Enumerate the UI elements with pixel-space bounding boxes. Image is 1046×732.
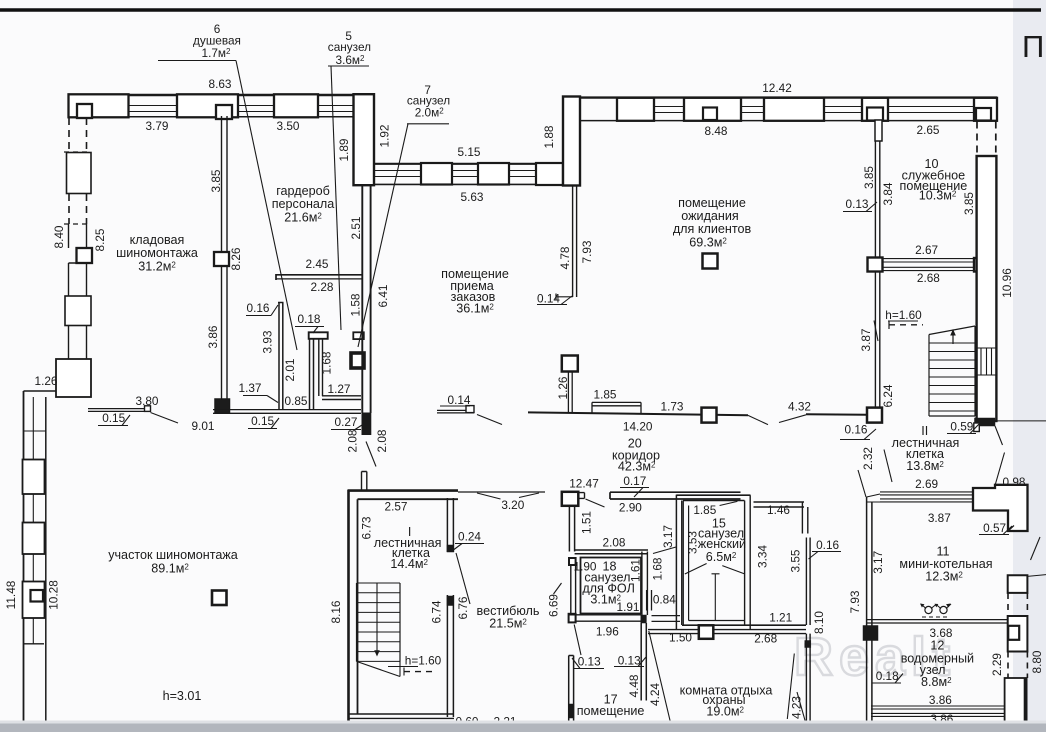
- svg-text:2.90: 2.90: [619, 501, 642, 515]
- svg-text:2.69: 2.69: [915, 477, 938, 491]
- window double lines: [129, 106, 354, 112]
- svg-text:5.63: 5.63: [461, 190, 484, 204]
- inner bottom line of 15/16: [683, 621, 806, 626]
- svg-text:шиномонтажа: шиномонтажа: [116, 246, 198, 260]
- svg-text:ожидания: ожидания: [681, 209, 738, 223]
- svg-text:помещение: помещение: [678, 196, 746, 210]
- svg-text:7.93: 7.93: [580, 240, 594, 263]
- svg-text:2.08: 2.08: [346, 429, 360, 452]
- svg-text:4.78: 4.78: [558, 246, 572, 269]
- svg-text:7.93: 7.93: [848, 590, 862, 613]
- svg-text:5.15: 5.15: [458, 145, 481, 159]
- wall y274-279: [276, 274, 362, 276]
- svg-text:1.88: 1.88: [542, 125, 556, 148]
- corridor piers: [702, 408, 717, 423]
- thin line to page edge: [996, 420, 1046, 422]
- exit door swings: [995, 426, 1005, 486]
- svg-text:21.5м2: 21.5м2: [489, 617, 527, 631]
- svg-text:3.87: 3.87: [859, 329, 873, 352]
- svg-text:12: 12: [930, 639, 944, 653]
- svg-text:10.3м2: 10.3м2: [919, 189, 957, 203]
- svg-text:3.86: 3.86: [929, 693, 952, 707]
- svg-text:1.68: 1.68: [320, 351, 334, 374]
- wall y550-554 (2.08): [575, 550, 648, 554]
- room6 left wall x279-283: [278, 303, 284, 410]
- svg-text:4.23: 4.23: [789, 696, 803, 719]
- south band y409-413: [213, 410, 361, 414]
- svg-text:3.85: 3.85: [962, 192, 976, 215]
- dashed window y193-222: [69, 194, 87, 224]
- wall band lines: [68, 94, 355, 96]
- wall section: [69, 263, 87, 296]
- room 16 top wall: [754, 502, 805, 507]
- svg-text:6.69: 6.69: [547, 594, 561, 617]
- svg-text:2.51: 2.51: [349, 217, 363, 240]
- room18 санузел для ФОЛ: [571, 559, 576, 615]
- bottom wall y619-623: [867, 620, 1008, 623]
- svg-text:8.10: 8.10: [812, 611, 826, 634]
- svg-text:1.85: 1.85: [594, 388, 617, 402]
- corridor north long line: [528, 412, 748, 415]
- wall 1.85 box: [592, 402, 641, 414]
- svg-text:0.85: 0.85: [285, 394, 308, 408]
- left wall x866-872: [867, 497, 872, 626]
- door swing: [151, 413, 179, 424]
- svg-text:1.92: 1.92: [378, 125, 392, 148]
- pier P3: [274, 94, 318, 117]
- column marker: [77, 248, 93, 263]
- svg-text:42.3м2: 42.3м2: [618, 460, 656, 474]
- svg-text:1.26: 1.26: [35, 374, 58, 388]
- svg-text:0.18: 0.18: [876, 669, 899, 683]
- pier P1: [69, 94, 129, 117]
- svg-text:для клиентов: для клиентов: [673, 222, 752, 236]
- svg-text:3.55: 3.55: [789, 549, 803, 572]
- svg-text:2.29: 2.29: [990, 653, 1004, 676]
- svg-text:8.40: 8.40: [52, 225, 66, 248]
- svg-text:1.50: 1.50: [669, 631, 692, 645]
- dashed window y118-152: [69, 118, 87, 152]
- svg-text:участок шиномонтажа: участок шиномонтажа: [108, 548, 238, 562]
- svg-text:1.61: 1.61: [628, 559, 642, 582]
- svg-text:10.96: 10.96: [1000, 268, 1014, 298]
- wall section: [69, 326, 87, 360]
- svg-text:31.2м2: 31.2м2: [138, 260, 176, 274]
- svg-text:2.08: 2.08: [603, 536, 626, 550]
- west segment of south line: [88, 409, 150, 412]
- small column markers: [703, 108, 717, 121]
- svg-text:1.89: 1.89: [337, 139, 351, 162]
- wall y629-634 + pier: [648, 630, 699, 634]
- svg-text:2.68: 2.68: [754, 632, 777, 646]
- вестибюль right stub x568-574: [569, 656, 574, 723]
- window block: [65, 296, 91, 326]
- stub below pier: [875, 120, 882, 141]
- svg-text:1.37: 1.37: [239, 381, 262, 395]
- svg-text:19.0м2: 19.0м2: [706, 705, 744, 719]
- svg-text:0.15: 0.15: [251, 414, 274, 428]
- 0.14 corner tick: [556, 294, 573, 301]
- svg-text:13.8м2: 13.8м2: [906, 459, 944, 473]
- svg-text:0.98: 0.98: [1003, 475, 1026, 489]
- small square notch: [31, 590, 44, 602]
- svg-text:8.80: 8.80: [1030, 650, 1044, 673]
- stairs I: [357, 583, 401, 662]
- svg-text:1.73: 1.73: [661, 400, 684, 414]
- svg-text:0.17: 0.17: [623, 474, 646, 488]
- exterior step 0.98: [973, 485, 1028, 531]
- svg-text:69.3м2: 69.3м2: [689, 236, 727, 250]
- svg-text:2.32: 2.32: [861, 447, 875, 470]
- svg-text:0.16: 0.16: [247, 301, 270, 315]
- column in ожидания room: [703, 254, 718, 269]
- window in right wall: [978, 350, 995, 374]
- svg-text:0.57: 0.57: [983, 521, 1006, 535]
- svg-text:3.50: 3.50: [277, 119, 300, 133]
- svg-text:8.63: 8.63: [209, 77, 232, 91]
- svg-text:2.01: 2.01: [283, 359, 297, 382]
- 0.84 nook wall: [647, 590, 680, 621]
- svg-text:0.59: 0.59: [950, 420, 973, 434]
- door bracket at thick wall: [353, 332, 364, 339]
- svg-text:1.85: 1.85: [693, 503, 716, 517]
- room15/16 bottom wall: [682, 624, 806, 626]
- svg-text:2.67: 2.67: [915, 243, 938, 257]
- svg-text:санузел: санузел: [328, 40, 371, 54]
- column marker in P2: [216, 105, 232, 119]
- svg-text:0.13: 0.13: [618, 654, 641, 668]
- wall 2.69 (x880-973): [880, 492, 973, 502]
- bottom gray band: [0, 724, 1046, 732]
- wall x676-682 (corridor side): [676, 495, 681, 629]
- corner block: [56, 359, 91, 397]
- svg-text:3.87: 3.87: [928, 511, 951, 525]
- svg-text:женский: женский: [698, 537, 746, 551]
- svg-text:3.34: 3.34: [755, 545, 769, 568]
- svg-text:2.28: 2.28: [311, 280, 334, 294]
- right wall lower w/ black tip: [447, 595, 453, 717]
- svg-text:1.51: 1.51: [580, 511, 594, 534]
- door swings bottom: [649, 631, 671, 723]
- wall x309-314 with T head: [310, 339, 314, 410]
- pier 12.47: [562, 492, 579, 506]
- black node square: [351, 353, 364, 368]
- svg-text:h=3.01: h=3.01: [163, 689, 202, 703]
- bottom end dark: [975, 418, 996, 426]
- top band: [348, 489, 459, 492]
- водомерный bottom walls y705-717: [871, 706, 1008, 716]
- svg-text:89.1м2: 89.1м2: [151, 562, 189, 576]
- room7 walls: [319, 339, 323, 396]
- svg-text:10.28: 10.28: [46, 580, 60, 610]
- svg-text:3.84: 3.84: [881, 182, 895, 205]
- svg-text:3.85: 3.85: [862, 166, 876, 189]
- svg-text:0.14: 0.14: [448, 393, 471, 407]
- svg-text:0.27: 0.27: [335, 415, 358, 429]
- svg-text:8.16: 8.16: [329, 600, 343, 623]
- svg-text:0.14: 0.14: [537, 292, 560, 306]
- corner piece: [536, 163, 563, 185]
- wall x569-574 (1.51): [569, 506, 574, 552]
- wall section: [69, 224, 87, 248]
- right wall x806-810: [806, 538, 810, 626]
- thick column B x563-580: [563, 97, 580, 186]
- svg-text:3.79: 3.79: [146, 119, 169, 133]
- right exterior wall x976-997: [977, 122, 996, 157]
- top wall of 15: [676, 495, 750, 500]
- svg-text:3.85: 3.85: [209, 169, 223, 192]
- thick column A x353-374: [354, 94, 375, 185]
- svg-text:2.57: 2.57: [385, 500, 408, 514]
- left wall below pier: [867, 641, 872, 724]
- south line of room strip (0.14 segment): [437, 410, 474, 413]
- svg-text:3.17: 3.17: [661, 525, 675, 548]
- svg-text:8.25: 8.25: [93, 228, 107, 251]
- corridor south wall y492-499 (x610-740): [610, 492, 741, 499]
- svg-text:3.17: 3.17: [871, 551, 885, 574]
- svg-text:8.48: 8.48: [705, 124, 728, 138]
- pump symbol: [925, 606, 932, 613]
- svg-text:1.27: 1.27: [328, 382, 351, 396]
- участок wall stub x361-367 above stairwell: [362, 472, 367, 491]
- inner wall x683-689: [683, 501, 688, 626]
- pier P2: [177, 94, 238, 117]
- svg-text:4.24: 4.24: [648, 683, 662, 706]
- svg-text:36.1м2: 36.1м2: [456, 302, 494, 316]
- svg-text:6.24: 6.24: [881, 384, 895, 407]
- jog to x23: [24, 390, 57, 392]
- svg-text:1.21: 1.21: [769, 611, 792, 625]
- underline/slash leaders for small dims: [243, 396, 278, 403]
- svg-text:1.96: 1.96: [596, 625, 619, 639]
- h=1.60 dashes: [404, 671, 434, 673]
- right exterior dashed strip x1008-1028: [1008, 575, 1028, 593]
- svg-text:2.65: 2.65: [917, 123, 940, 137]
- top scan border line: [0, 8, 1041, 11]
- svg-text:0.16: 0.16: [845, 423, 868, 437]
- door arc room15: [653, 547, 676, 554]
- bottom wall: [348, 714, 455, 718]
- dark pier: [863, 626, 878, 641]
- stairs II: [929, 326, 975, 416]
- svg-text:3.80: 3.80: [136, 394, 159, 408]
- svg-text:1.46: 1.46: [767, 503, 790, 517]
- svg-text:1.58: 1.58: [349, 293, 363, 316]
- svg-text:14.4м2: 14.4м2: [390, 557, 428, 571]
- svg-text:0.16: 0.16: [816, 538, 839, 552]
- wall 2.67/2.68: [882, 259, 974, 271]
- svg-text:9.01: 9.01: [192, 419, 215, 433]
- recess piers: [421, 163, 452, 185]
- wall x572-577 below column B: [573, 186, 577, 297]
- svg-text:h=1.60: h=1.60: [885, 308, 922, 322]
- room16 right wall upper: [802, 502, 807, 534]
- svg-text:0.18: 0.18: [298, 312, 321, 326]
- svg-text:12.47: 12.47: [569, 477, 599, 491]
- svg-text:4.48: 4.48: [627, 674, 641, 697]
- recess band y163-185: [374, 163, 563, 165]
- h=1.60 dashes: [889, 324, 923, 326]
- svg-text:6.74: 6.74: [430, 600, 444, 623]
- room15 door V symbol: [685, 564, 745, 621]
- window blocks: [23, 460, 45, 495]
- wall x875-880 from y141 to 407: [875, 141, 879, 407]
- svg-text:персонала: персонала: [272, 197, 335, 211]
- column marker: [214, 252, 229, 266]
- svg-text:0.84: 0.84: [653, 593, 676, 607]
- column + stem x568-572: [562, 356, 578, 372]
- 3.20 opening line + door: [458, 491, 545, 493]
- thick wall x362-371: [362, 186, 370, 413]
- svg-text:1.26: 1.26: [556, 376, 570, 399]
- svg-text:h=1.60: h=1.60: [405, 654, 442, 668]
- dark pier bottom: [215, 399, 230, 413]
- neck middle lines: [32, 397, 34, 644]
- svg-text:0.13: 0.13: [578, 655, 601, 669]
- svg-text:12.3м2: 12.3м2: [925, 570, 963, 584]
- svg-text:6.76: 6.76: [456, 596, 470, 619]
- svg-text:6.41: 6.41: [376, 285, 390, 308]
- door swing into stairwell II: [884, 450, 892, 483]
- svg-text:2.68: 2.68: [917, 271, 940, 285]
- svg-text:0.15: 0.15: [102, 411, 125, 425]
- window block: [67, 153, 92, 194]
- svg-text:14.20: 14.20: [623, 420, 653, 434]
- svg-text:кладовая: кладовая: [130, 233, 185, 247]
- svg-text:8.26: 8.26: [229, 247, 243, 270]
- svg-text:4.32: 4.32: [788, 400, 811, 414]
- svg-text:2.08: 2.08: [375, 429, 389, 452]
- svg-text:0.13: 0.13: [846, 197, 869, 211]
- right wall upper w/ black tip: [447, 498, 453, 552]
- svg-text:3.20: 3.20: [501, 498, 524, 512]
- right wall of 15: [745, 495, 751, 629]
- svg-text:12.42: 12.42: [762, 81, 792, 95]
- svg-text:11.48: 11.48: [4, 580, 18, 609]
- svg-text:2.45: 2.45: [306, 257, 329, 271]
- wall x642-648 down to room17: [641, 623, 646, 701]
- stub right of pier + door: [578, 493, 584, 499]
- svg-text:21.6м2: 21.6м2: [284, 211, 322, 225]
- svg-text:0.24: 0.24: [458, 530, 481, 544]
- svg-text:гардероб: гардероб: [276, 184, 330, 198]
- svg-text:3.93: 3.93: [261, 330, 275, 353]
- svg-text:6.73: 6.73: [359, 516, 373, 539]
- column marker in P1: [77, 104, 92, 118]
- svg-text:1.68: 1.68: [650, 557, 664, 580]
- svg-text:3.86: 3.86: [206, 325, 220, 348]
- svg-text:П: П: [1022, 29, 1044, 64]
- left wall: [347, 490, 350, 723]
